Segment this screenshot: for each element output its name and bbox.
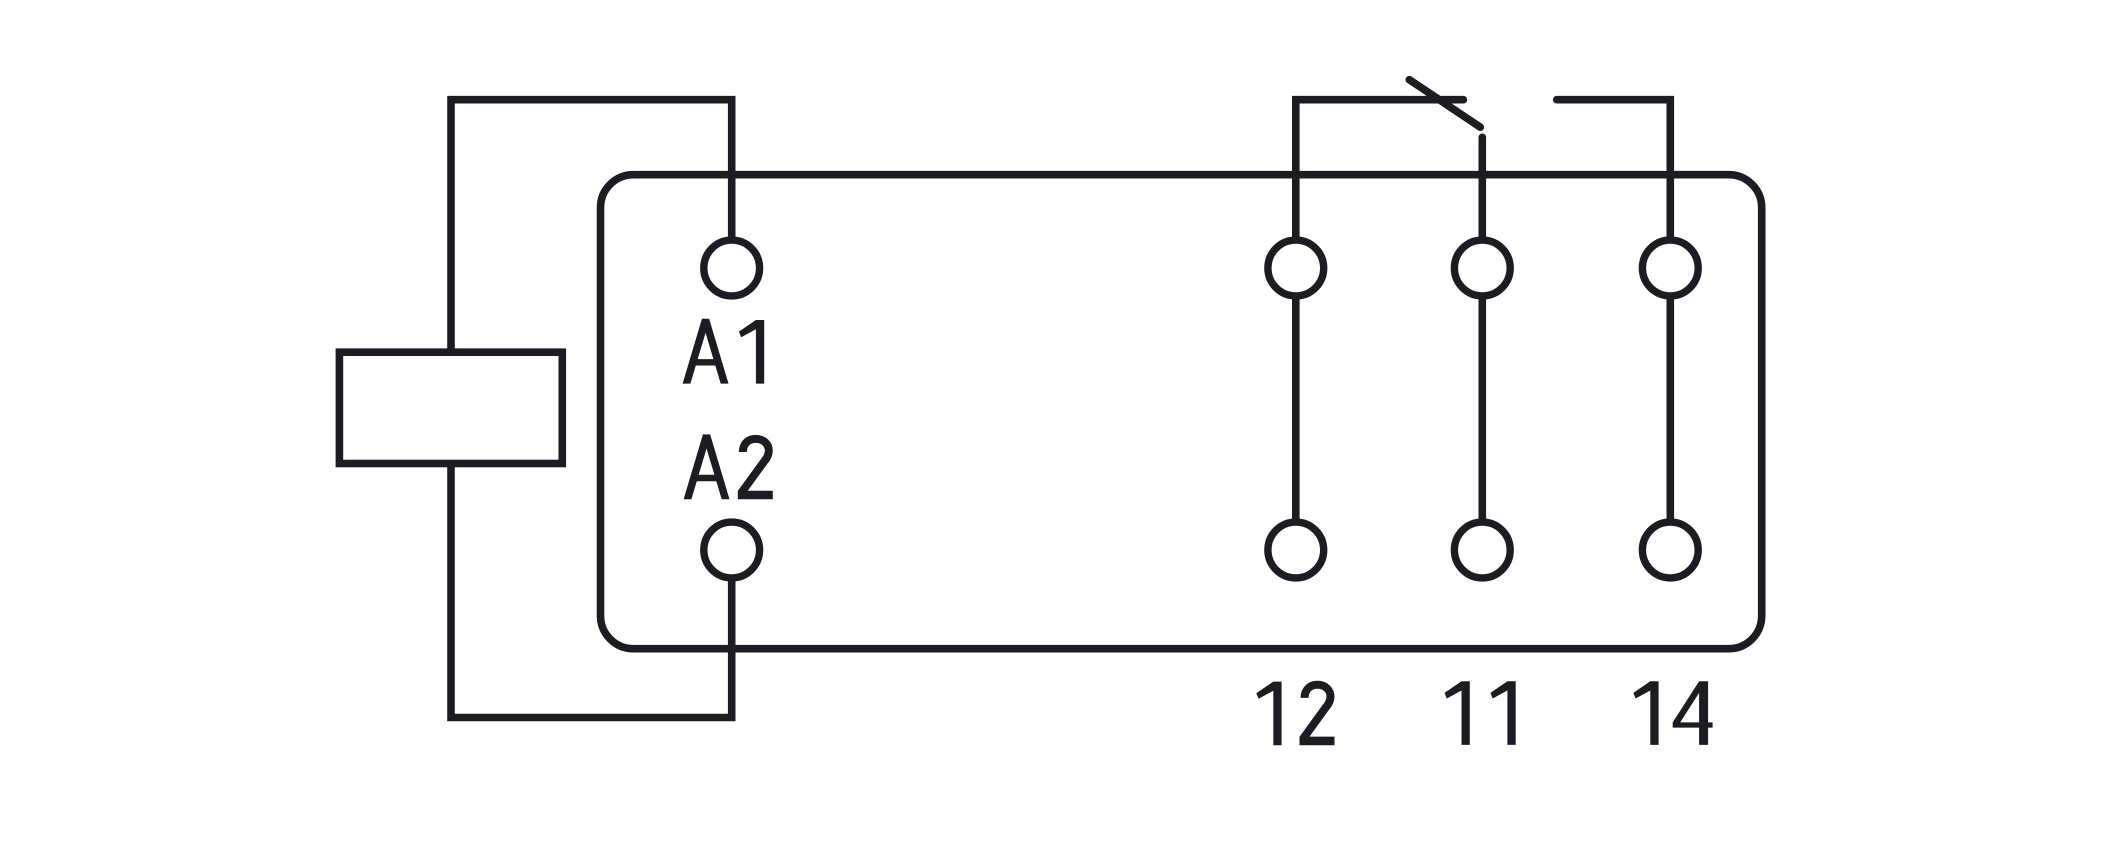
terminal 12 top [1268, 240, 1324, 296]
coil K1 [339, 352, 562, 463]
wire coil bottom to A2 [451, 464, 732, 718]
terminal 11 top [1454, 240, 1510, 296]
label 12 [1256, 682, 1334, 746]
label 14 [1633, 681, 1712, 745]
wire 12 between terminals [1292, 297, 1300, 521]
terminal 11 bottom [1454, 522, 1510, 578]
terminal 12 bottom [1268, 522, 1324, 578]
wire 12 fixed contact [1296, 100, 1464, 238]
contact arm 11 [1409, 80, 1480, 128]
label A1 [683, 319, 765, 384]
terminal 14 top [1642, 240, 1698, 296]
wire coil top to A1 [451, 100, 732, 353]
wire 11 pole [1479, 137, 1487, 237]
label 11 [1445, 681, 1516, 745]
terminal A1 [704, 240, 760, 296]
relay body outline [601, 175, 1762, 649]
wire 11 between terminals [1479, 297, 1487, 521]
terminal A2 [704, 522, 760, 578]
wire 14 fixed contact [1557, 100, 1671, 238]
label A2 [684, 434, 773, 499]
terminal 14 bottom [1642, 522, 1698, 578]
wire 14 between terminals [1667, 297, 1675, 521]
